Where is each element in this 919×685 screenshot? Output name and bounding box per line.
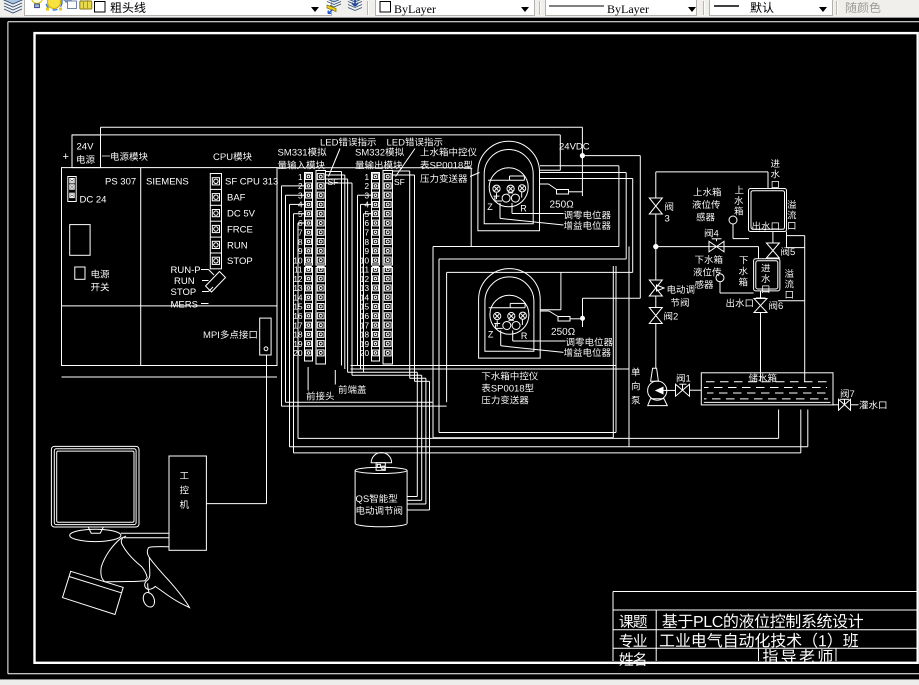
LED SF CPU 313 [212, 177, 278, 188]
svg-text:5: 5 [364, 210, 369, 219]
24V supply box [72, 135, 101, 168]
wire SM332 t3 [358, 195, 372, 365]
title text [662, 613, 863, 628]
svg-text:4: 4 [298, 201, 303, 210]
wire rack top to transmitter box [72, 135, 560, 170]
wire bus y365 [351, 365, 617, 367]
svg-text:3: 3 [665, 214, 670, 225]
cable monitor to PC [121, 533, 169, 538]
resistor R1 250ohm [540, 184, 582, 194]
label upper tank controller [420, 147, 476, 182]
label power module [111, 152, 147, 161]
valve V3 [649, 198, 662, 214]
leader LED2 to SF [396, 149, 416, 177]
rack rail line [62, 376, 278, 378]
label 250ohm lower [552, 328, 575, 335]
label gain pot upper [564, 221, 611, 230]
wire QS stubs [407, 497, 429, 511]
svg-text:8: 8 [298, 238, 303, 247]
svg-text:20: 20 [360, 349, 370, 358]
wire bus y402 [286, 401, 434, 403]
wire wrap U2 [540, 173, 626, 260]
label electric valve [668, 285, 695, 307]
svg-text:16: 16 [360, 312, 370, 321]
label valve 2 [664, 312, 677, 321]
label zero pot upper [564, 210, 611, 219]
svg-text:17: 17 [360, 321, 370, 330]
wire bus y438 [298, 410, 779, 439]
label lower tank [739, 256, 748, 286]
sensor lower tank [716, 274, 754, 293]
electric control valve [649, 280, 664, 296]
label valve 4 [705, 229, 719, 238]
valve V6 [754, 291, 767, 382]
keyboard [63, 571, 124, 614]
upper tank T1 [749, 189, 787, 232]
label power switch [91, 270, 109, 292]
wire SM331 t6 [298, 223, 305, 438]
svg-text:19: 19 [360, 340, 370, 349]
label overflow upper [787, 200, 796, 229]
svg-text:2: 2 [364, 182, 369, 191]
svg-text:24VDC: 24VDC [559, 142, 590, 153]
svg-text:4: 4 [364, 201, 369, 210]
label valve 6 [769, 301, 783, 310]
leader pots upper [500, 203, 564, 225]
label gain pot lower [564, 348, 611, 357]
wire upper transmitter left box [470, 168, 472, 247]
power block square [70, 225, 90, 256]
wire wrap U1 [540, 166, 619, 247]
wire SM332 out b [393, 175, 415, 381]
leader to transmitter U1 [470, 173, 480, 177]
pipe main riser [655, 172, 657, 368]
svg-text:+: + [63, 151, 69, 163]
valve V5 [766, 243, 779, 258]
LED STOP [210, 253, 252, 267]
major text [660, 633, 858, 648]
wire SM331 out b [326, 175, 345, 369]
LED BAF [210, 189, 245, 203]
svg-text:14: 14 [360, 293, 370, 302]
svg-text:7: 7 [364, 228, 369, 237]
PS307 terminal connector [68, 177, 76, 202]
linetype combo [545, 0, 697, 16]
svg-text:6: 6 [364, 219, 369, 228]
valve V1 [676, 384, 690, 396]
wire SM331 out c [326, 179, 348, 372]
svg-text:STOP: STOP [227, 256, 253, 267]
lower tank T2 [754, 259, 780, 291]
svg-text:SF CPU 313: SF CPU 313 [225, 177, 278, 188]
label lower tank controller [482, 371, 538, 404]
QS smart valve [355, 453, 407, 527]
wire wrap M1 [433, 247, 619, 438]
sensor upper tank [729, 216, 749, 239]
wire SM331 t3 [286, 195, 305, 402]
cable swoosh bolt [145, 547, 190, 608]
label overflow lower [785, 269, 794, 298]
minus label [102, 155, 110, 158]
svg-text:SIEMENS: SIEMENS [146, 177, 189, 188]
pipe overflow upper [787, 232, 805, 382]
label MPI port [204, 330, 257, 339]
MPI connector [260, 318, 271, 355]
svg-text:R: R [521, 331, 528, 341]
svg-text:R: R [520, 203, 527, 213]
pipe valve1 to tank [690, 389, 702, 391]
svg-text:15: 15 [360, 303, 370, 312]
valve V4 [709, 239, 724, 252]
svg-text:RUN: RUN [227, 240, 248, 251]
label valve 1 [677, 374, 690, 383]
pipe to tank inlet [656, 172, 768, 189]
svg-text:1: 1 [298, 173, 303, 182]
svg-text:18: 18 [360, 331, 370, 340]
label fill port [859, 401, 886, 410]
wire SM331 out a [326, 172, 342, 366]
svg-text:RUN: RUN [174, 276, 195, 287]
wire right wrap down [628, 247, 630, 447]
industrial PC tower [169, 456, 206, 550]
rack top rail to modules [277, 167, 471, 169]
svg-text:STOP: STOP [171, 287, 197, 298]
svg-text:3: 3 [364, 191, 369, 200]
svg-text:12: 12 [360, 275, 370, 284]
label valve 5 [781, 247, 795, 256]
label storage tank [749, 373, 777, 382]
svg-text:Z: Z [488, 329, 494, 339]
wire 24V to lower resistor [583, 156, 641, 327]
junction dot 24VDC [580, 154, 584, 158]
svg-text:SF: SF [394, 177, 405, 187]
wire wrap M3 [447, 272, 633, 402]
svg-text:FRCE: FRCE [227, 224, 253, 235]
label zero pot lower [566, 337, 613, 346]
pipe overflow lower [778, 300, 805, 302]
CPU LED column [210, 174, 221, 269]
svg-text:DC 5V: DC 5V [227, 209, 256, 220]
wire SM332 t4 [361, 204, 372, 369]
layer combo [24, 0, 332, 16]
svg-text:3: 3 [298, 191, 303, 200]
LED DC 5V [210, 205, 255, 219]
label advisor [763, 649, 833, 664]
wire SM331 t4 [290, 204, 305, 446]
wire bus y453 [294, 410, 801, 453]
svg-text:Z: Z [487, 202, 493, 212]
svg-text:DC 24: DC 24 [80, 195, 107, 206]
svg-text:9: 9 [298, 247, 303, 256]
wire wrap U3 [540, 179, 633, 273]
water dashes [704, 382, 830, 399]
svg-text:5: 5 [298, 210, 303, 219]
mode switch [201, 270, 226, 304]
cable swoosh left band [101, 536, 147, 582]
pressure transmitter U1 [478, 141, 540, 231]
pipe tank outlet [772, 232, 774, 244]
label lower level sensor [693, 255, 722, 289]
pipe branch to lower tank [656, 247, 759, 259]
label inlet lower [761, 264, 770, 293]
label subject field [619, 615, 647, 629]
label front cover [339, 385, 367, 394]
label valve 3 [665, 202, 674, 224]
wire resistor feed lower [540, 272, 561, 309]
label name field [619, 652, 645, 666]
svg-text:1: 1 [364, 173, 369, 182]
wire 24VDC branch [582, 155, 640, 157]
svg-text:BAF: BAF [227, 193, 246, 204]
power switch square [75, 267, 85, 279]
svg-text:MERS: MERS [171, 300, 198, 311]
label upper level sensor [692, 187, 721, 221]
wire MPI cable [206, 355, 266, 504]
wire bus y378 [410, 378, 426, 504]
svg-text:2: 2 [298, 182, 303, 191]
title block table [613, 592, 917, 662]
leader front cover [334, 370, 336, 385]
wire bus y381 [415, 381, 430, 510]
label outlet upper [752, 222, 778, 231]
svg-text:7: 7 [298, 228, 303, 237]
leader front connector [307, 367, 309, 391]
label inlet top [771, 159, 780, 188]
wire box bottom B2 [439, 266, 616, 433]
svg-text:11: 11 [361, 266, 370, 275]
label major field [620, 634, 647, 648]
monitor [51, 446, 139, 541]
pressure transmitter U2 [479, 269, 541, 359]
pipe pump to valve1 [663, 389, 676, 391]
svg-text:9: 9 [364, 247, 369, 256]
label CPU module [213, 152, 251, 161]
layers tool icon [2, 0, 24, 17]
svg-text:8: 8 [364, 238, 369, 247]
wire bus y447 [290, 410, 808, 447]
plot style disabled [845, 0, 895, 17]
wire 24VDC vertical [581, 127, 583, 196]
label SM331 [278, 148, 326, 170]
wire bus y375 [352, 375, 422, 500]
wire bus y369 [351, 368, 630, 370]
wire SM331 out d [326, 183, 353, 375]
wire SM332 t5 [364, 214, 372, 373]
lineweight combo [709, 0, 833, 16]
wire SM331 t2 [282, 186, 305, 406]
LED FRCE [210, 221, 253, 235]
pump P1 [648, 368, 668, 405]
svg-text:10: 10 [360, 256, 370, 265]
wire SM331 t5 [294, 214, 305, 453]
svg-text:PS 307: PS 307 [105, 177, 136, 188]
storage tank T3 [701, 373, 833, 405]
label QS valve [356, 494, 402, 515]
valve V7 [833, 399, 859, 410]
color combo [375, 0, 535, 16]
SM332 analog output module [360, 171, 405, 365]
leader LED1 to SF [329, 149, 341, 177]
PLC rack [62, 168, 278, 366]
label LED error indicator 2 [387, 138, 442, 147]
label valve 7 [841, 389, 854, 398]
valve V2 [649, 308, 662, 324]
resistor R2 250ohm [541, 311, 583, 321]
label LED error indicator 1 [321, 138, 376, 147]
junction node pipe [654, 244, 658, 248]
wire bus y372 [348, 372, 418, 496]
layer buttons [325, 0, 367, 17]
wire 24V top feed [101, 127, 583, 135]
label upper tank [734, 186, 743, 216]
svg-text:24V: 24V [77, 142, 95, 153]
junction dot R2 [581, 316, 585, 320]
mouse [141, 583, 156, 608]
svg-text:RUN-P: RUN-P [171, 265, 201, 276]
svg-text:13: 13 [360, 284, 370, 293]
label SM332 [355, 148, 403, 170]
label 250ohm upper [550, 201, 573, 208]
wire SM332 out a [393, 171, 410, 378]
label outlet lower [726, 299, 752, 308]
leader pots lower [501, 330, 566, 352]
label pump [631, 368, 640, 405]
wire wrap M2 [439, 259, 626, 433]
LED RUN [210, 237, 247, 251]
wire box bottom B1 [433, 266, 613, 438]
wire bus y406 [282, 405, 447, 407]
SM331 analog input module [293, 171, 338, 365]
label front connector [307, 391, 334, 400]
svg-text:6: 6 [298, 219, 303, 228]
